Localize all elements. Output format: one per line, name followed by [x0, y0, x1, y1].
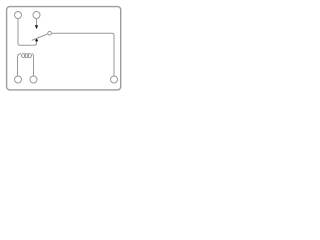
- wire from P2 down: [36, 19, 38, 26]
- pin P5 (coil terminal right): [30, 76, 37, 83]
- pin P1 (top-left terminal): [15, 12, 22, 19]
- coil loop 2: [25, 54, 29, 58]
- pin P4 (coil terminal left): [15, 76, 22, 83]
- pin P2 (fixed contact terminal): [33, 12, 40, 19]
- pin P3 (bottom-right terminal): [111, 76, 118, 83]
- arrow down (fixed contact pointer): [35, 25, 38, 29]
- coil loop 3: [28, 54, 32, 58]
- coil L1: [18, 54, 21, 76]
- wire from pivot to right and down: [52, 33, 115, 76]
- coil right side: [32, 54, 33, 76]
- wire from P1 down, right, up to switch arm: [18, 19, 37, 46]
- switch arm SW: [32, 34, 48, 41]
- switch pivot: [48, 31, 52, 35]
- arrow up (moving contact pointer): [35, 38, 38, 42]
- coil loop 1: [22, 54, 26, 58]
